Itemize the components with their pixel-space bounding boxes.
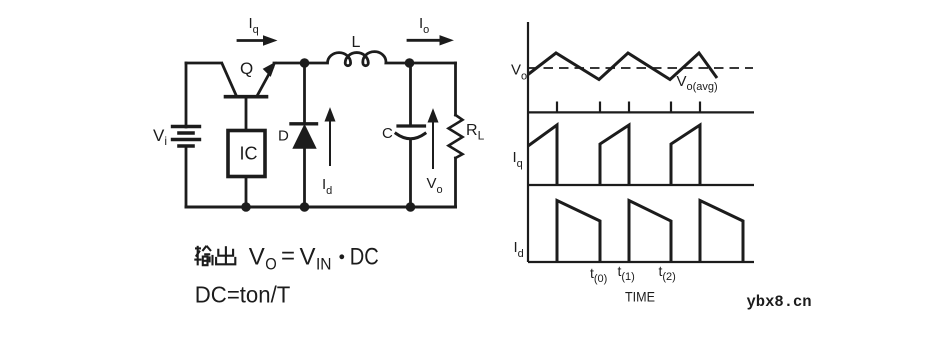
- wire RL to rail: [454, 158, 457, 207]
- inductor L: [305, 52, 410, 66]
- diode D: [291, 124, 317, 148]
- junction node output top: [405, 58, 415, 68]
- svg-text:DC=ton/T: DC=ton/T: [195, 282, 290, 308]
- svg-text:DC: DC: [350, 244, 379, 271]
- tick marks: [557, 102, 700, 113]
- label chinese 输出 output: [194, 246, 235, 266]
- wire IC to rail: [245, 177, 248, 208]
- label C: [382, 125, 393, 142]
- waveform y-axis: [527, 22, 529, 262]
- wire capacitor to rail: [409, 140, 412, 207]
- capacitor C: [396, 126, 425, 139]
- current arrow Id: [325, 109, 335, 166]
- label Vi: [153, 126, 167, 148]
- waveform Vo average dashed line: [528, 67, 753, 69]
- label Q: [240, 59, 253, 78]
- voltage arrow Vo: [428, 110, 438, 169]
- svg-text:C: C: [382, 125, 393, 142]
- label RL: [466, 122, 485, 143]
- waveform Vo trace: [528, 53, 717, 80]
- waveform panel: [528, 22, 754, 262]
- wire output top to RL corner: [410, 62, 456, 65]
- wire collector to node: [274, 62, 305, 65]
- wire top-left horizontal: [186, 62, 222, 65]
- wire RL branch top: [454, 63, 457, 115]
- junction node capacitor bottom: [406, 202, 416, 212]
- svg-text:=: =: [281, 243, 295, 270]
- wire base to IC: [245, 98, 248, 130]
- svg-text:TIME: TIME: [625, 290, 655, 305]
- waveform tick line: [528, 111, 754, 113]
- svg-text:D: D: [278, 128, 289, 145]
- waveform Iq trace: [528, 125, 629, 184]
- label Iq: [249, 15, 259, 36]
- IC block: [228, 131, 265, 177]
- resistor RL: [449, 115, 463, 158]
- label Id: [322, 176, 332, 197]
- label Io: [419, 15, 429, 36]
- wire battery bottom to rail: [185, 147, 188, 208]
- transistor Q: [222, 63, 276, 97]
- bottom rail wire: [186, 206, 456, 209]
- current arrow Io: [408, 36, 453, 45]
- label D: [278, 128, 289, 145]
- waveform Iq baseline: [528, 184, 754, 186]
- wire diode branch top: [303, 63, 306, 124]
- formula VO = VIN · DC: [249, 243, 379, 274]
- junction node diode bottom: [300, 202, 310, 212]
- label L: [352, 34, 361, 51]
- svg-text:ybx8.cn: ybx8.cn: [747, 293, 812, 311]
- waveform time axis: [528, 261, 754, 263]
- svg-text:O: O: [265, 255, 277, 274]
- svg-text:IC: IC: [240, 144, 258, 164]
- battery Vi: [173, 127, 200, 147]
- junction node diode top: [300, 58, 310, 68]
- label Vo circuit: [427, 175, 443, 196]
- svg-text:V: V: [249, 244, 265, 271]
- svg-text:L: L: [352, 34, 361, 51]
- svg-text:IN: IN: [316, 255, 332, 274]
- wire capacitor branch top: [409, 63, 412, 126]
- svg-text:V: V: [300, 244, 316, 271]
- svg-text:Q: Q: [240, 59, 253, 78]
- wire left branch battery top: [185, 63, 188, 127]
- current arrow Iq: [238, 36, 276, 45]
- junction node IC-rail: [241, 202, 251, 212]
- wire diode to rail: [303, 147, 306, 207]
- waveform Id trace: [557, 201, 743, 262]
